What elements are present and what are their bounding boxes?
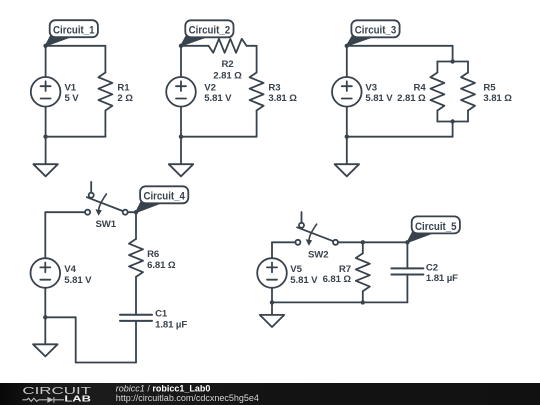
svg-text:2 Ω: 2 Ω (117, 93, 133, 104)
svg-text:Circuit_1: Circuit_1 (53, 25, 95, 37)
svg-text:SW2: SW2 (308, 250, 329, 261)
svg-text:C2: C2 (426, 262, 438, 273)
svg-text:C1: C1 (155, 309, 168, 320)
svg-text:LAB: LAB (64, 395, 91, 404)
svg-text:robicc1 / robicc1_Lab0: robicc1 / robicc1_Lab0 (116, 383, 211, 393)
svg-text:5.81 V: 5.81 V (365, 93, 393, 104)
svg-text:Circuit_3: Circuit_3 (355, 25, 397, 37)
svg-text:5.81 V: 5.81 V (204, 93, 232, 104)
svg-text:2.81 Ω: 2.81 Ω (397, 93, 426, 104)
svg-text:Circuit_4: Circuit_4 (143, 191, 185, 203)
svg-text:Circuit_2: Circuit_2 (189, 25, 231, 37)
svg-text:R7: R7 (339, 264, 351, 275)
svg-text:V5: V5 (290, 264, 302, 275)
svg-text:Circuit_5: Circuit_5 (415, 221, 457, 233)
svg-text:R6: R6 (147, 249, 159, 260)
svg-text:3.81 Ω: 3.81 Ω (483, 93, 512, 104)
svg-text:2.81 Ω: 2.81 Ω (213, 71, 242, 82)
svg-text:5.81 V: 5.81 V (64, 275, 92, 286)
svg-text:http://circuitlab.com/cdcxnec5: http://circuitlab.com/cdcxnec5hg5e4 (116, 393, 259, 403)
svg-text:R4: R4 (414, 82, 427, 93)
svg-text:R5: R5 (483, 82, 496, 93)
svg-text:R1: R1 (117, 82, 130, 93)
svg-text:6.81 Ω: 6.81 Ω (147, 260, 176, 271)
svg-text:V3: V3 (365, 82, 377, 93)
svg-text:3.81 Ω: 3.81 Ω (268, 93, 297, 104)
svg-text:R2: R2 (221, 59, 233, 70)
svg-text:V4: V4 (64, 264, 76, 275)
svg-text:V1: V1 (65, 82, 77, 93)
svg-text:6.81 Ω: 6.81 Ω (323, 274, 352, 285)
svg-text:1.81 µF: 1.81 µF (155, 319, 187, 330)
svg-text:5.81 V: 5.81 V (290, 275, 318, 286)
svg-text:5 V: 5 V (65, 93, 80, 104)
svg-text:SW1: SW1 (96, 219, 117, 230)
svg-text:V2: V2 (204, 82, 216, 93)
svg-text:R3: R3 (268, 82, 280, 93)
svg-text:1.81 µF: 1.81 µF (426, 273, 458, 284)
